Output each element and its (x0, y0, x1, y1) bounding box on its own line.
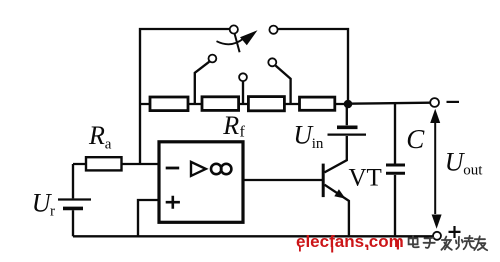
svg-text:out: out (463, 162, 483, 178)
svg-text:f: f (240, 124, 246, 141)
svg-text:C: C (406, 124, 425, 154)
svg-text:R: R (222, 111, 239, 140)
svg-text:a: a (105, 137, 112, 153)
svg-text:r: r (50, 204, 55, 220)
svg-text:R: R (88, 121, 105, 150)
svg-text:in: in (312, 136, 324, 152)
svg-text:elecfans.com: elecfans.com (296, 232, 404, 251)
svg-text:VT: VT (349, 165, 382, 192)
